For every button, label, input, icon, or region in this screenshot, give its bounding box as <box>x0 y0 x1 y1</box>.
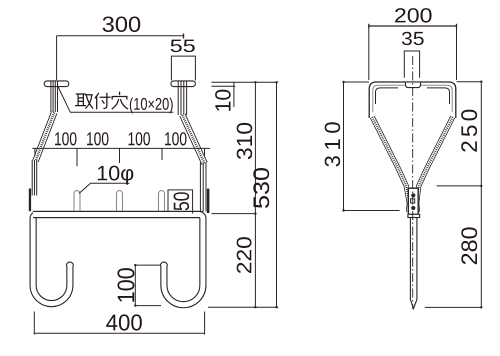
ext hook bottom <box>208 306 278 308</box>
clamp nut rect <box>411 199 415 203</box>
top bar outer <box>369 82 456 118</box>
leader 10φ <box>79 183 130 193</box>
top bar inner line 1 (gray) <box>373 85 452 112</box>
ext top right <box>457 81 483 83</box>
dim 10 vertical <box>233 82 235 107</box>
ext tube bottom (mid) <box>212 213 256 215</box>
right strap dark end mark <box>207 189 210 213</box>
dim 35 lines <box>404 51 419 78</box>
blade <box>410 218 417 309</box>
dim 100 hooks bottom line <box>135 305 161 307</box>
dim 200 line <box>369 25 457 27</box>
leader 取付穴 <box>58 86 174 113</box>
dim 200 extensions <box>368 26 370 80</box>
centerline (dash-dot) <box>412 56 414 309</box>
label 300 <box>103 16 141 32</box>
right strap (upper vertical section) <box>178 81 186 115</box>
ext mid right (250/280 boundary) <box>437 185 482 187</box>
dim 400 extensions <box>33 312 35 335</box>
dim 530 vertical <box>276 82 278 307</box>
label 10 rot <box>215 90 231 111</box>
right leg (hatched strap) <box>417 117 453 212</box>
mounting flange left <box>44 81 69 87</box>
right hook tip cap <box>160 262 167 266</box>
label 530 rot <box>253 168 269 208</box>
pin P3 (10φ) <box>159 191 165 211</box>
dim 310/220 vertical <box>254 82 256 307</box>
ext flange top <box>212 81 279 83</box>
left hook tip cap <box>66 262 73 266</box>
left strap (upper vertical section) <box>51 81 58 112</box>
pin P2 (10φ) <box>117 191 123 211</box>
label 100 d <box>165 132 186 145</box>
dim 310 top ext <box>344 81 370 83</box>
label 400 <box>106 314 142 330</box>
left leg (hatched strap) <box>372 117 409 212</box>
label 取付穴 (10×20) as vector glyphs <box>76 92 128 108</box>
dim 310 bottom ext <box>344 210 400 212</box>
dim 100 ticks <box>34 148 36 156</box>
mounting flange right <box>171 81 196 87</box>
label 35 <box>402 32 424 45</box>
top bar inner line 2 right <box>427 88 450 104</box>
dim 250/280 vertical <box>480 82 482 308</box>
dim 300 right tick <box>183 34 185 39</box>
label 100 b <box>87 132 108 145</box>
label 100 a <box>55 132 76 145</box>
junction dots <box>134 81 278 308</box>
dim 200 end stubs <box>368 24 370 28</box>
dim 400 line <box>34 332 204 334</box>
label 200 <box>395 8 431 23</box>
redraw bar white core to clean joint <box>36 212 200 217</box>
left strap lower vertical section <box>32 160 37 196</box>
label 280 rot <box>461 227 477 264</box>
ext flange bottom <box>212 85 236 87</box>
label 100 rot <box>117 268 134 302</box>
pin P1 (10φ) <box>74 191 80 211</box>
label 100 c <box>129 132 150 145</box>
label (10x20) <box>130 97 173 113</box>
dim 50 box <box>168 190 193 214</box>
label 50 rot <box>174 192 190 210</box>
dim 100-spacing line <box>32 147 210 149</box>
label 55 <box>171 40 195 53</box>
dim 310 vertical <box>343 82 345 211</box>
label 250 rot <box>461 110 477 152</box>
label 310 rot L <box>237 123 253 159</box>
dim 300 line <box>57 35 184 37</box>
label 310 rot R <box>325 122 341 166</box>
clamp cap <box>408 214 420 217</box>
dim 100 hooks top line <box>135 264 161 266</box>
top bar inner line 2 left <box>376 88 399 104</box>
clamp body <box>408 188 418 214</box>
strap tab over top <box>406 83 421 88</box>
left strap slanted (hatched) section <box>36 113 55 162</box>
label 220 rot <box>237 237 252 273</box>
dim 100 hooks vertical <box>134 265 136 306</box>
label 10phi <box>98 166 133 185</box>
dim 300 left extension <box>56 36 58 80</box>
lower tube (bar + two J-hooks), centerline trick <box>33 214 203 304</box>
right strap lower vertical section <box>200 163 206 212</box>
left strap dark end mark <box>29 189 31 212</box>
dim 55 box <box>171 56 195 80</box>
clamp bolt upper <box>411 193 415 197</box>
ext bottom right <box>425 306 482 308</box>
clamp bolt lower <box>411 206 415 210</box>
right strap slanted (hatched) section <box>182 115 204 164</box>
